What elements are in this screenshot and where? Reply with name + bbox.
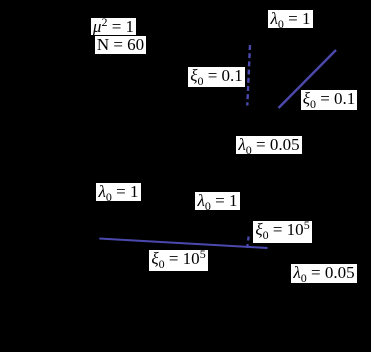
label lambda0 = 1 (bottom plot middle) <box>195 192 240 210</box>
dashed tick contour xi0=1e5 (bottom plot) <box>247 237 249 250</box>
label xi0 = 0.1 (right, solid) <box>301 90 357 110</box>
label lambda0 = 1 (top plot) <box>268 10 313 28</box>
label lambda0 = 0.05 (top plot) <box>236 136 302 154</box>
label mu^2 = 1 <box>91 18 136 35</box>
label xi0 = 1e5 (lower) <box>149 250 208 271</box>
label N = 60 <box>95 36 146 54</box>
solid contour xi0=1e5 (bottom plot) <box>99 239 267 249</box>
label lambda0 = 1 (bottom plot left) <box>96 183 141 201</box>
dashed contour xi0=0.1 (top plot) <box>247 45 250 106</box>
solid contour xi0=0.1 (top plot) <box>279 50 337 108</box>
label xi0 = 1e5 (upper) <box>253 221 312 243</box>
label lambda0 = 0.05 (bottom plot) <box>291 264 357 283</box>
label xi0 = 0.1 (left, dashed) <box>188 67 245 87</box>
